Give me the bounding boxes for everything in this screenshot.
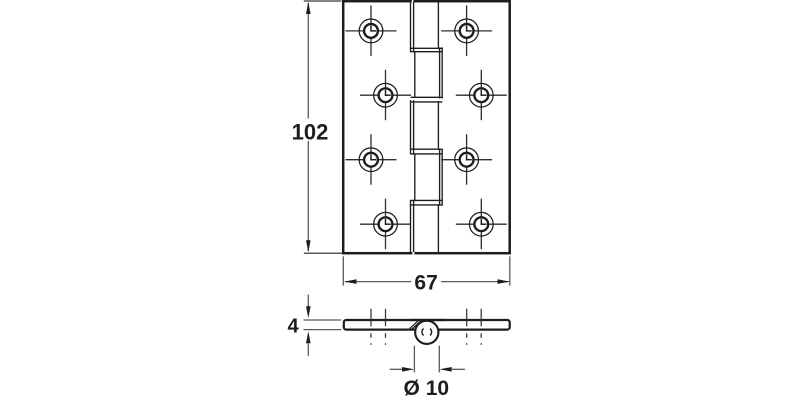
dimension 67 arrow right [498, 279, 510, 284]
screw hole B4 [360, 199, 411, 250]
knuckle segment 2 right pair [440, 47, 443, 98]
dimension 67 left extension line [342, 256, 344, 285]
knuckle segment 4 right pair [440, 149, 443, 206]
side view screw centerline 3 [466, 309, 468, 345]
dimension 102 top extension line [304, 0, 342, 2]
side view transition hatch lines [410, 321, 420, 329]
svg-text:4: 4 [287, 316, 299, 338]
side view pin hole arcs [422, 329, 424, 336]
dimension D10 arrow left-pointing [440, 367, 452, 372]
dimension 102 line upper [307, 3, 309, 119]
screw hole D2 [456, 70, 507, 121]
dimension 67 right extension line [509, 256, 511, 285]
knuckle segment 3 left pair [411, 100, 414, 154]
knuckle boundary 3 [411, 149, 443, 154]
dimension 102 arrow down [306, 240, 311, 252]
dimension D10 line left [390, 368, 403, 370]
side view screw centerline 1 [370, 309, 372, 345]
dimension 102 arrow up [306, 2, 311, 14]
dimension 4 line upper [307, 295, 309, 308]
knuckle segment 5 right curl line [437, 204, 439, 252]
dimension 4 arrow up [306, 331, 311, 343]
dimension D10 left extension line [413, 346, 415, 373]
side view screw centerline 2 [385, 309, 387, 345]
dimension 4 line lower [307, 343, 309, 356]
gap in top edge at knuckle [412, 0, 414, 3]
screw hole A1 [346, 5, 397, 56]
svg-text:Ø 10: Ø 10 [404, 377, 450, 400]
gap in bottom edge at knuckle [412, 252, 414, 255]
dimension 67 arrow left [344, 279, 356, 284]
dimension 67 line right [441, 281, 509, 283]
knuckle segment 2 left curl line [414, 51, 416, 98]
svg-text:67: 67 [414, 272, 437, 295]
dimension 4 top extension line [304, 319, 342, 321]
screw hole B2 [360, 70, 411, 121]
side view knuckle barrel circle [415, 321, 438, 344]
screw hole A3 [346, 134, 397, 185]
side view screw centerline 4 [480, 309, 482, 345]
dimension 4 bottom extension line [304, 329, 342, 331]
dimension D10 line right [452, 368, 465, 370]
screw hole C1 [441, 5, 492, 56]
svg-text:102: 102 [292, 120, 329, 145]
dimension 67 line left [345, 281, 411, 283]
knuckle boundary 1 [411, 48, 443, 51]
dimension 102 bottom extension line [304, 252, 342, 254]
dimension D10 arrow right-pointing [402, 367, 414, 372]
knuckle segment 1 right curl line [437, 2, 439, 49]
knuckle segment 1 left pair [411, 2, 414, 52]
dimension D10 right extension line [438, 346, 440, 373]
knuckle segment 5 left pair [411, 200, 414, 252]
knuckle segment 3 right curl line [437, 101, 439, 150]
dimension 102 line lower [307, 141, 309, 251]
side view leaf bar [344, 320, 510, 330]
dimension 4 arrow down [306, 306, 311, 318]
side view bar top line over barrel [410, 319, 445, 321]
knuckle boundary 2 [411, 97, 443, 102]
knuckle boundary 4 [411, 200, 443, 205]
screw hole D4 [456, 199, 507, 250]
screw hole C3 [441, 134, 492, 185]
hinge leaf plate outline (top view) [343, 1, 510, 253]
knuckle segment 4 left curl line [414, 153, 416, 201]
